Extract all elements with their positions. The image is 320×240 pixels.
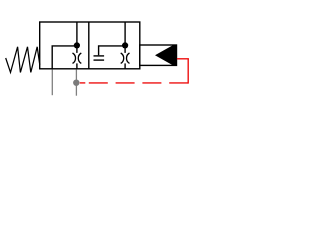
node: position-2 junction dot — [122, 42, 128, 48]
throttle arcs position 2 — [121, 53, 130, 63]
blocked port bar 1 — [94, 55, 105, 57]
blocked port bar 2 — [94, 59, 105, 61]
gray port line A (below valve, left) — [51, 69, 53, 95]
red pilot line: stub at gray junction — [80, 82, 86, 84]
red pilot line: top run into solenoid — [177, 58, 189, 60]
red pilot line: right riser — [187, 59, 189, 84]
valve envelope (2-position body) — [40, 22, 140, 69]
red pilot line: dashed bottom run — [89, 82, 189, 84]
throttle arcs position 1 — [73, 53, 82, 63]
position divider — [88, 22, 90, 69]
wire: position-1 port line lower — [76, 63, 78, 68]
gray port line B (below valve, right) — [75, 69, 77, 95]
node: gray pilot junction dot — [73, 80, 79, 86]
wire: position-2 port line upper — [124, 22, 126, 53]
node: position-1 junction dot — [74, 42, 80, 48]
wire: position-2 branch to blocked port — [99, 46, 126, 55]
solenoid box (proportional solenoid actuator) — [140, 45, 177, 65]
solenoid arrow (filled triangle with thick base) — [155, 45, 177, 65]
wire: position-1 port line upper — [76, 22, 78, 53]
wire: position-1 branch (left/down to bottom port) — [52, 46, 77, 69]
spring (return spring, left side) — [6, 47, 40, 73]
wire: position-2 port line lower — [124, 63, 126, 68]
